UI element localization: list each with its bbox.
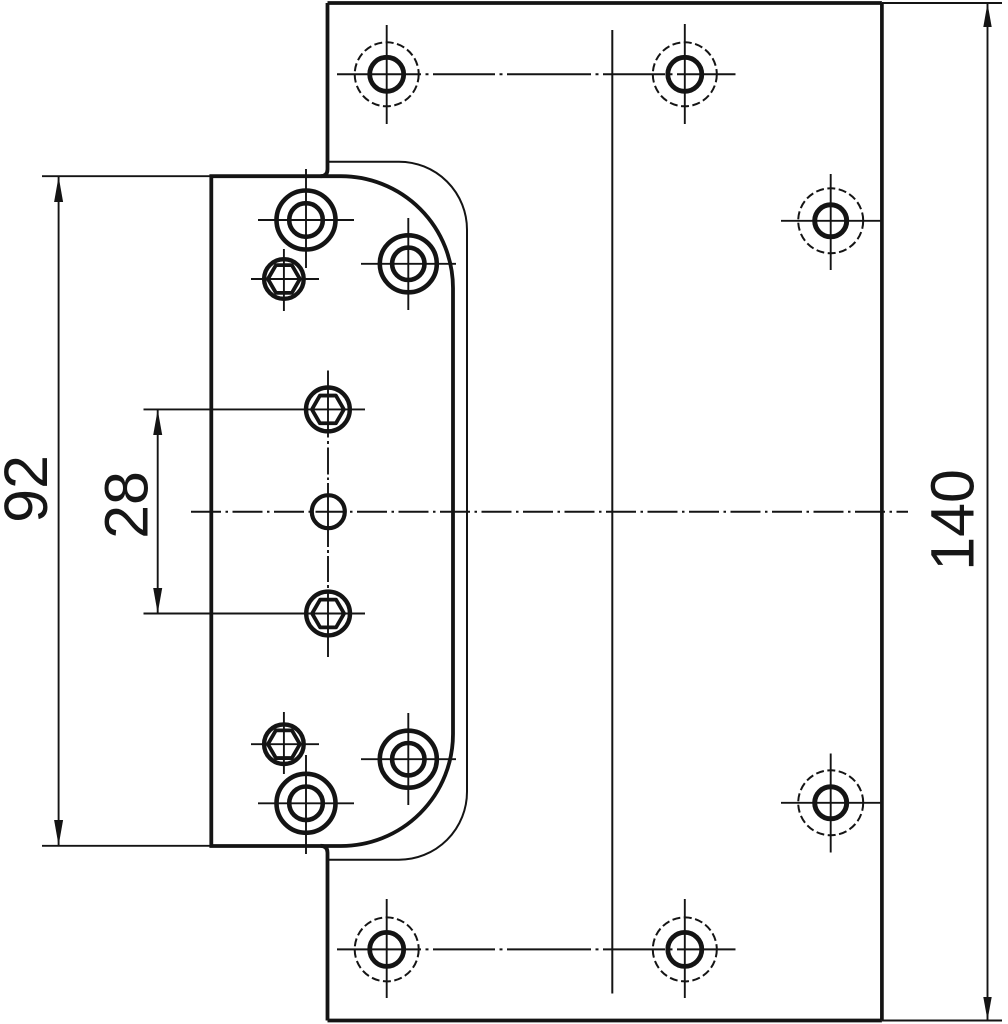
svg-text:140: 140 [919, 469, 987, 571]
svg-text:28: 28 [93, 471, 161, 539]
svg-text:92: 92 [0, 455, 60, 523]
